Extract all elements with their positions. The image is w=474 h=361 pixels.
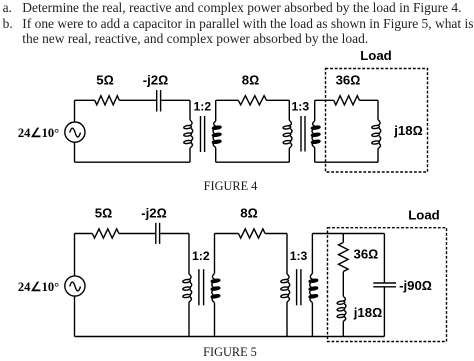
inductor T1 secondary winding (Fig4): [215, 100, 217, 121]
wire top rail left (Fig5 loop1): [75, 233, 93, 235]
inductor T1 secondary winding (Fig5): [214, 234, 216, 274]
wire top rail (Fig4 loop2 right): [267, 99, 290, 101]
inductor L j18ohm (Fig5): [343, 296, 346, 321]
wire load top rail (Fig5): [312, 233, 384, 235]
wire top rail (Fig4 loop2 left): [216, 99, 239, 101]
wire top rail (Fig5 loop2 left): [215, 233, 239, 235]
wire top rail (Fig5 loop2 right): [265, 233, 287, 235]
wire cap to T1 primary (Fig5): [160, 233, 189, 235]
inductor T2 secondary winding (Fig5): [311, 234, 313, 274]
resistor R 5ohm (Fig5): [92, 229, 119, 238]
svg-text:FIGURE 5: FIGURE 5: [203, 345, 257, 359]
problem statement text: [3, 0, 12, 16]
wire load bottom rail (Fig4): [315, 161, 378, 163]
wire 36ohm to j18 (Fig5): [342, 272, 344, 297]
svg-text:24∠10°: 24∠10°: [18, 280, 59, 294]
svg-text:j18Ω: j18Ω: [393, 123, 422, 138]
svg-text:j18Ω: j18Ω: [353, 305, 382, 320]
wire bottom rail (Fig4 loop2): [216, 161, 290, 163]
svg-text:Load: Load: [360, 48, 392, 63]
svg-text:8Ω: 8Ω: [240, 206, 257, 221]
transformer T2 core (Fig5): [296, 269, 298, 305]
svg-text:24∠10°: 24∠10°: [18, 126, 59, 140]
inductor T1 primary winding (Fig5): [188, 234, 190, 275]
resistor R 8ohm (Fig4): [238, 96, 266, 105]
transformer T2 core (Fig4): [300, 116, 302, 152]
source Vs 24@10deg (Fig4): [65, 122, 85, 142]
svg-text:36Ω: 36Ω: [353, 246, 378, 261]
svg-text:Load: Load: [408, 208, 440, 223]
svg-text:8Ω: 8Ω: [242, 73, 259, 88]
capacitor C -j2ohm (Fig4): [156, 90, 158, 112]
inductor T2 secondary winding (Fig4): [314, 100, 316, 121]
wire cap branch upper (Fig5): [383, 234, 385, 284]
wire left rail upper (Fig4): [74, 100, 76, 122]
svg-text:-j90Ω: -j90Ω: [399, 278, 432, 293]
wire load top rail left (Fig4): [315, 99, 334, 101]
wire left rail lower (Fig4): [74, 142, 76, 162]
resistor R 5ohm (Fig4): [95, 96, 120, 105]
wire load top rail right (Fig4): [359, 99, 378, 101]
wire cap to T1 primary (Fig4): [161, 99, 190, 101]
svg-text:1:3: 1:3: [291, 99, 309, 113]
wire cap branch lower (Fig5): [383, 287, 385, 337]
inductor T1 primary winding (Fig4): [189, 100, 191, 120]
svg-text:FIGURE 4: FIGURE 4: [204, 179, 258, 193]
resistor R 36ohm (Fig5): [339, 243, 349, 272]
wire left rail lower (Fig5): [74, 296, 76, 337]
svg-text:-j2Ω: -j2Ω: [143, 73, 169, 88]
transformer T1 core (Fig5): [198, 269, 200, 305]
svg-text:5Ω: 5Ω: [96, 73, 113, 88]
inductor T2 primary winding (Fig4): [288, 100, 290, 120]
resistor R 36ohm (Fig4): [334, 96, 360, 105]
wire bottom rail (Fig4 loop1): [75, 161, 191, 163]
inductor L j18ohm (Fig4): [377, 100, 379, 119]
wire common bottom rail (Fig5): [75, 336, 385, 338]
wire 36ohm branch top stub (Fig5): [342, 234, 344, 243]
svg-text:-j2Ω: -j2Ω: [141, 206, 167, 221]
capacitor C -j2ohm (Fig5): [155, 223, 157, 244]
svg-text:1:2: 1:2: [192, 249, 210, 263]
wire left rail upper (Fig5): [74, 234, 76, 277]
wire between R and C (Fig4): [119, 99, 156, 101]
svg-text:1:3: 1:3: [290, 249, 308, 263]
inductor T2 primary winding (Fig5): [286, 234, 288, 275]
load box dashed (Fig4): [326, 69, 428, 173]
svg-text:1:2: 1:2: [193, 99, 211, 113]
svg-text:5Ω: 5Ω: [95, 206, 112, 221]
resistor R 8ohm (Fig5): [239, 229, 266, 238]
wire between R and C (Fig5): [119, 233, 155, 235]
transformer T1 core (Fig4): [200, 116, 202, 152]
source Vs 24@10deg (Fig5): [65, 276, 85, 296]
svg-text:36Ω: 36Ω: [336, 73, 361, 88]
capacitor C -j90ohm (Fig5): [373, 282, 396, 284]
load box dashed (Fig5): [328, 228, 447, 342]
wire top rail left (Fig4 loop1): [75, 99, 95, 101]
